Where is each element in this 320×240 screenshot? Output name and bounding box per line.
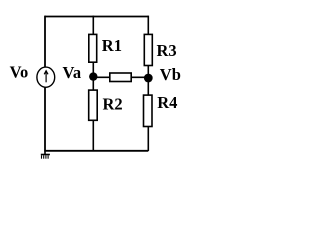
svg-text:Va: Va (63, 63, 82, 82)
svg-text:R4: R4 (157, 93, 177, 112)
svg-text:R2: R2 (103, 95, 123, 114)
svg-text:R3: R3 (157, 41, 177, 60)
svg-text:Vb: Vb (160, 65, 181, 84)
svg-text:R1: R1 (102, 36, 122, 55)
svg-text:Vo: Vo (10, 62, 29, 81)
